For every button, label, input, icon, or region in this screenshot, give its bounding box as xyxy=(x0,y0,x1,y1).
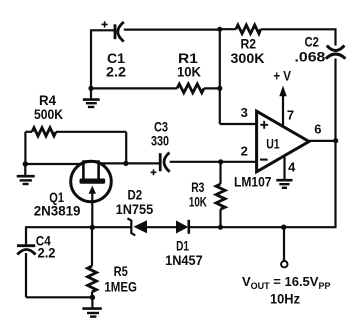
wire R5 bottom stub xyxy=(91,292,93,298)
svg-text:LM107: LM107 xyxy=(234,174,272,190)
wire R5 top stub xyxy=(91,227,93,266)
wire C4 branch top xyxy=(26,226,92,228)
ground under C1 loop xyxy=(83,88,100,107)
wire C4 upper vertical xyxy=(25,226,27,244)
wire transistor to C3 xyxy=(98,162,160,164)
diode D2 zener 1N755 xyxy=(127,218,147,235)
label D2 1N755 xyxy=(116,187,154,218)
capacitor C4 xyxy=(17,246,36,255)
resistor R3 xyxy=(216,184,225,209)
svg-text:10Hz: 10Hz xyxy=(270,291,300,306)
transistor Q1 channel bar xyxy=(80,179,106,184)
ground under R5 xyxy=(82,297,101,316)
capacitor C3 xyxy=(151,153,170,176)
transistor Q1 circle xyxy=(71,161,112,202)
svg-text:6: 6 xyxy=(314,121,321,136)
svg-text:7: 7 xyxy=(287,108,294,123)
wire bottom of C1 loop to R1 xyxy=(91,87,177,89)
node junction R1 xyxy=(217,86,222,91)
ground at gate-left xyxy=(17,164,35,184)
wire mid vertical down to pin3 level xyxy=(219,29,221,124)
svg-text:D2: D2 xyxy=(128,187,143,203)
wire right rail xyxy=(334,59,336,228)
svg-text:10K: 10K xyxy=(177,64,201,80)
wire C3 to pin2 xyxy=(170,161,257,163)
wire pin3 horizontal xyxy=(220,123,257,125)
wire D1 to R3 node xyxy=(189,226,221,228)
wire R3 bottom stub xyxy=(219,209,221,227)
svg-text:1N755: 1N755 xyxy=(116,201,154,217)
resistor R4 xyxy=(32,128,56,136)
label R4 500K xyxy=(34,92,63,122)
svg-text:330: 330 xyxy=(151,133,169,149)
wire R3 node to output node xyxy=(221,226,284,228)
node dot at C1 loop corner xyxy=(88,86,93,91)
wire C4 bottom to R5 node xyxy=(26,296,92,298)
resistor R4 loop top wire xyxy=(25,131,32,133)
svg-text:300K: 300K xyxy=(231,50,265,66)
label R1 10K xyxy=(177,50,201,80)
node junction top xyxy=(217,27,222,32)
svg-text:VOUT = 16.5VPP: VOUT = 16.5VPP xyxy=(242,274,330,291)
transistor Q1 top bridge xyxy=(82,162,100,180)
wire right rail top xyxy=(334,28,336,45)
svg-text:3: 3 xyxy=(241,105,248,120)
op-amp plus input mark xyxy=(260,121,268,129)
node junction R5 ground xyxy=(90,295,95,300)
wire R4 loop left vertical xyxy=(24,132,26,164)
svg-text:R2: R2 xyxy=(241,35,257,51)
label C1 2.2 xyxy=(106,50,126,80)
resistor R2 xyxy=(236,25,261,34)
wire top-left horizontal to C1 xyxy=(91,29,114,31)
wire D2 to D1 xyxy=(147,226,176,228)
svg-text:.068: .068 xyxy=(295,49,326,65)
node gate-left junction xyxy=(23,161,28,166)
svg-text:500K: 500K xyxy=(34,106,63,122)
node junction R3 bottom xyxy=(218,225,223,230)
op-amp U1 xyxy=(257,111,309,172)
wire left vertical of C1 loop xyxy=(90,29,92,88)
svg-text:2.2: 2.2 xyxy=(38,245,56,261)
svg-text:2N3819: 2N3819 xyxy=(34,203,81,219)
svg-text:2: 2 xyxy=(241,144,248,159)
wire R1 to mid junction xyxy=(204,87,221,89)
capacitor C1 xyxy=(102,21,124,41)
label C2 .068 xyxy=(295,33,326,64)
label Q1 2N3819 xyxy=(34,189,81,219)
terminal output circle xyxy=(281,261,287,267)
wire C1 to top junction xyxy=(124,29,221,31)
svg-text:1MEG: 1MEG xyxy=(104,279,137,295)
wire R4 to right side of loop xyxy=(56,131,126,133)
wire R3 top stub xyxy=(219,162,221,184)
wire Q1 node to D2 xyxy=(92,226,131,228)
node output junction on rail xyxy=(333,138,338,143)
capacitor C2 xyxy=(326,46,346,59)
svg-text:4: 4 xyxy=(288,160,296,175)
resistor R5 xyxy=(88,266,97,292)
diode D1 1N457 xyxy=(176,220,189,234)
node junction Q1 source xyxy=(90,225,95,230)
label D1 1N457 xyxy=(165,238,203,268)
svg-text:10K: 10K xyxy=(189,194,207,210)
supply arrow to pin7 xyxy=(279,86,286,127)
label R2 300K xyxy=(231,35,265,66)
wire R2 to top right corner xyxy=(261,28,336,30)
svg-text:R5: R5 xyxy=(114,263,128,279)
node output stub junction xyxy=(281,225,286,230)
wire top junction to R2 xyxy=(220,28,236,30)
label R5 1MEG xyxy=(104,263,137,295)
pin 4 wire xyxy=(283,157,285,180)
svg-text:C2: C2 xyxy=(305,33,320,49)
transistor Q1 gate arrow xyxy=(89,186,96,228)
svg-text:+ V: + V xyxy=(273,68,291,84)
ground under op-amp pin4 xyxy=(276,180,292,188)
node junction R4-right on gate wire xyxy=(123,161,128,166)
label C3 330 xyxy=(151,119,169,149)
wire output node to right rail xyxy=(284,226,337,228)
wire gate-left to transistor xyxy=(25,163,84,165)
wire pin 6 output xyxy=(309,140,336,142)
label C4 2.2 xyxy=(36,233,56,261)
wire C4 lower vertical xyxy=(25,253,27,297)
label R3 10K xyxy=(189,179,207,210)
node junction R3 top xyxy=(218,159,223,164)
resistor R1 xyxy=(177,84,204,93)
svg-text:2.2: 2.2 xyxy=(106,64,126,80)
wire R4 loop right vertical xyxy=(125,132,127,164)
wire output stub down xyxy=(283,227,285,261)
svg-text:1N457: 1N457 xyxy=(165,252,203,268)
op-amp minus input mark xyxy=(260,159,268,161)
svg-text:U1: U1 xyxy=(266,136,280,152)
